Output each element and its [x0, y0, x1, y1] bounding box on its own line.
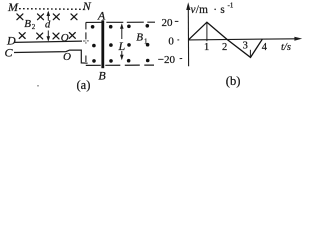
x-axis arrowhead — [294, 37, 302, 41]
svg-text:M: M — [7, 0, 19, 14]
field B2 cross row 1 — [17, 14, 77, 20]
field B1 dots row 1 — [91, 24, 149, 29]
svg-text:A: A — [97, 8, 106, 22]
dimension arrow d upper segment — [47, 11, 51, 21]
field B1 dots row 2 — [92, 43, 149, 47]
svg-text:1: 1 — [204, 42, 209, 53]
y tick 0 — [177, 39, 179, 41]
svg-text:O: O — [61, 32, 69, 44]
svg-text:O: O — [63, 51, 71, 63]
trough riser line at t=3 — [249, 50, 251, 58]
svg-text:(a): (a) — [77, 78, 91, 92]
svg-text:B: B — [98, 69, 106, 83]
svg-text:−20: −20 — [158, 54, 176, 66]
x-axis — [188, 39, 295, 40]
field region B1 dashed border top — [86, 21, 155, 23]
y-axis — [187, 8, 189, 66]
field region B1 dashed border left — [85, 22, 87, 43]
svg-text:C: C — [5, 45, 14, 59]
svg-text:1: 1 — [144, 37, 148, 45]
rail C with corner down to field box — [14, 50, 88, 63]
y-axis arrowhead — [186, 2, 190, 10]
svg-text:4: 4 — [262, 42, 268, 53]
rail D — [15, 41, 83, 42]
svg-text:N: N — [82, 0, 92, 13]
svg-text:v/m · s: v/m · s — [191, 4, 226, 16]
svg-text:3: 3 — [243, 41, 248, 52]
svg-text:B: B — [136, 32, 143, 44]
svg-text:2: 2 — [32, 23, 36, 31]
svg-text:0: 0 — [168, 35, 174, 47]
dimension arrow L lower segment — [120, 51, 124, 60]
stray scan speck — [37, 85, 39, 87]
y tick 20 — [175, 20, 179, 22]
dimension arrow L upper segment — [120, 23, 124, 39]
y tick -20 — [180, 58, 183, 60]
rail D dashed end — [83, 40, 89, 42]
field B1 dots row 3 — [92, 59, 149, 63]
svg-text:(b): (b) — [226, 74, 241, 88]
svg-text:B: B — [24, 18, 31, 30]
svg-text:2: 2 — [222, 42, 227, 53]
peak drop line at t=1 — [206, 22, 208, 41]
svg-text:L: L — [118, 39, 126, 53]
svg-text:t/s: t/s — [281, 42, 291, 53]
dimension arrow d lower segment — [47, 31, 51, 42]
boundary line MN (dotted) — [19, 8, 84, 11]
field region B1 dashed border bottom — [86, 64, 154, 66]
velocity curve — [189, 22, 263, 57]
svg-text:d: d — [45, 20, 51, 31]
field B2 cross row 2 — [19, 33, 75, 39]
svg-text:20: 20 — [162, 17, 174, 29]
svg-text:-1: -1 — [228, 1, 234, 9]
rod AB — [101, 20, 104, 68]
